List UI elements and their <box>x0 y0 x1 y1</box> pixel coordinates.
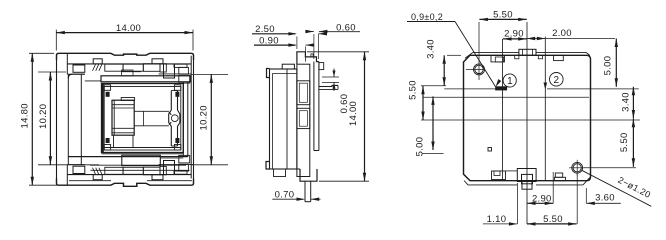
svg-text:10.20: 10.20 <box>38 104 49 129</box>
svg-text:5.50: 5.50 <box>493 10 513 21</box>
svg-text:2: 2 <box>554 75 560 86</box>
svg-text:0,9±0,2: 0,9±0,2 <box>411 12 443 22</box>
svg-text:14.00: 14.00 <box>348 101 359 126</box>
svg-text:5.50: 5.50 <box>543 214 563 225</box>
svg-text:2.50: 2.50 <box>255 24 275 35</box>
svg-text:3.40: 3.40 <box>426 39 437 59</box>
svg-text:0.60: 0.60 <box>336 22 356 33</box>
svg-text:5.50: 5.50 <box>408 80 419 100</box>
svg-text:1: 1 <box>507 76 513 87</box>
svg-text:14.80: 14.80 <box>20 103 31 128</box>
svg-text:3.40: 3.40 <box>621 92 632 112</box>
svg-text:2.00: 2.00 <box>552 28 572 39</box>
svg-text:2.90: 2.90 <box>504 28 524 39</box>
svg-text:0.90: 0.90 <box>259 36 279 47</box>
svg-text:10.20: 10.20 <box>199 105 210 130</box>
svg-text:3.60: 3.60 <box>595 193 615 204</box>
svg-text:0.70: 0.70 <box>275 190 295 201</box>
svg-text:5.00: 5.00 <box>603 56 614 76</box>
svg-text:14.00: 14.00 <box>116 23 141 34</box>
svg-text:5.50: 5.50 <box>619 132 630 152</box>
svg-text:1.10: 1.10 <box>487 214 507 225</box>
svg-text:2.90: 2.90 <box>532 193 552 204</box>
